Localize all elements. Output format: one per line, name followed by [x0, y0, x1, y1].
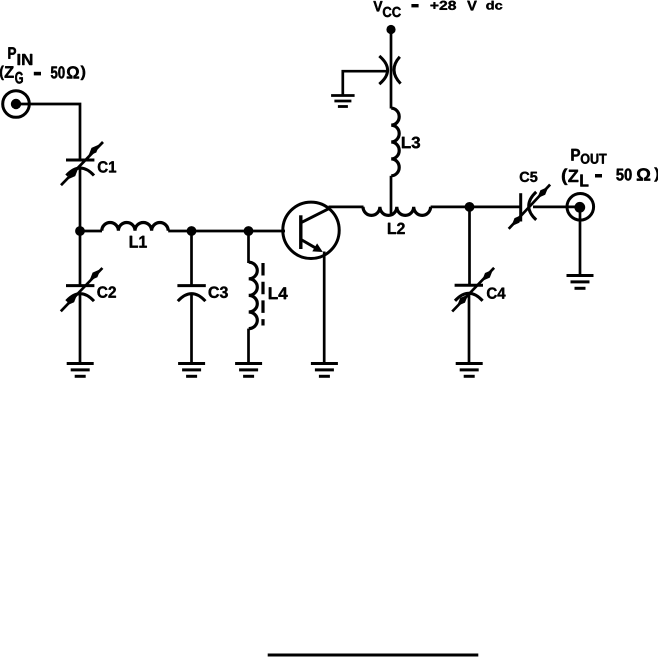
transistor Q1 circle	[283, 202, 339, 258]
wire L3 to L2 junction	[390, 176, 393, 214]
wire VCC to L3	[390, 30, 393, 109]
wire emitter to ground	[323, 252, 326, 365]
capacitor C2 (variable)	[61, 268, 103, 311]
text (Z_G = 50 ohm) label	[0, 66, 85, 84]
wire feedthrough to ground	[343, 71, 387, 96]
feedthrough capacitor left arc	[379, 56, 387, 84]
wire node A to C2	[79, 231, 82, 285]
wire C2 to ground	[79, 293, 82, 364]
capacitor C4 (variable)	[452, 268, 494, 312]
node B junction dot	[187, 226, 197, 236]
ground below L4	[235, 364, 262, 377]
transistor Q1 base bar	[299, 215, 302, 249]
label C3	[209, 287, 228, 299]
node C junction dot	[244, 226, 254, 236]
text P_IN label	[8, 47, 32, 65]
wire C5 to output connector	[533, 206, 580, 209]
label C2	[97, 286, 116, 297]
ground below output connector	[567, 276, 594, 289]
transistor Q1 collector line	[301, 208, 330, 222]
wire node D to C4	[468, 207, 471, 285]
text (Z_L = 50 ohm) label	[562, 168, 658, 187]
ground below C4	[456, 364, 483, 377]
feedthrough capacitor right arc	[394, 57, 401, 84]
wire C4 to ground	[468, 293, 471, 365]
text P_OUT label	[571, 149, 606, 164]
wire C3 to ground	[190, 293, 193, 364]
wire output connector to ground	[579, 207, 582, 277]
wire node B to C3	[190, 231, 193, 286]
wire input to C1 branch	[16, 104, 80, 159]
label L1	[130, 236, 147, 248]
label C5	[520, 172, 538, 182]
wire L4 to ground	[247, 329, 250, 365]
capacitor C1 (variable)	[61, 142, 103, 185]
wire collector to L2	[329, 206, 364, 209]
wire L1 to transistor base	[168, 230, 285, 233]
label C4	[487, 288, 506, 299]
capacitor C5 (variable, series)	[509, 185, 550, 229]
ground below C2	[67, 364, 94, 377]
label L4	[269, 287, 288, 299]
inductor L2	[363, 207, 431, 216]
wire node D to C5	[470, 206, 521, 209]
wire node C to L4	[247, 231, 250, 263]
ground below C3	[178, 364, 205, 377]
inductor L3	[391, 108, 399, 176]
ground at feedthrough	[331, 96, 355, 107]
transistor Q1 emitter line with arrow	[301, 240, 323, 253]
label L2	[388, 223, 405, 234]
inductor L4	[249, 262, 258, 328]
node D junction dot	[465, 202, 475, 212]
ground below emitter	[311, 364, 338, 377]
node A junction dot	[75, 226, 85, 236]
capacitor C3	[177, 286, 205, 302]
L4 adjustable core dashed line	[261, 263, 264, 326]
wire C1 to node A	[79, 168, 82, 233]
inductor L1	[102, 223, 168, 231]
VCC terminal dot	[386, 25, 395, 34]
wire node A to L1	[80, 230, 102, 233]
label C1	[98, 161, 116, 172]
bottom separator line	[268, 654, 479, 657]
wire L2 to node D	[431, 206, 470, 209]
connector J2 P_OUT	[567, 194, 594, 221]
text VCC = +28 V dc	[373, 1, 502, 17]
connector J1 P_IN	[3, 91, 30, 118]
label L3	[402, 137, 420, 149]
